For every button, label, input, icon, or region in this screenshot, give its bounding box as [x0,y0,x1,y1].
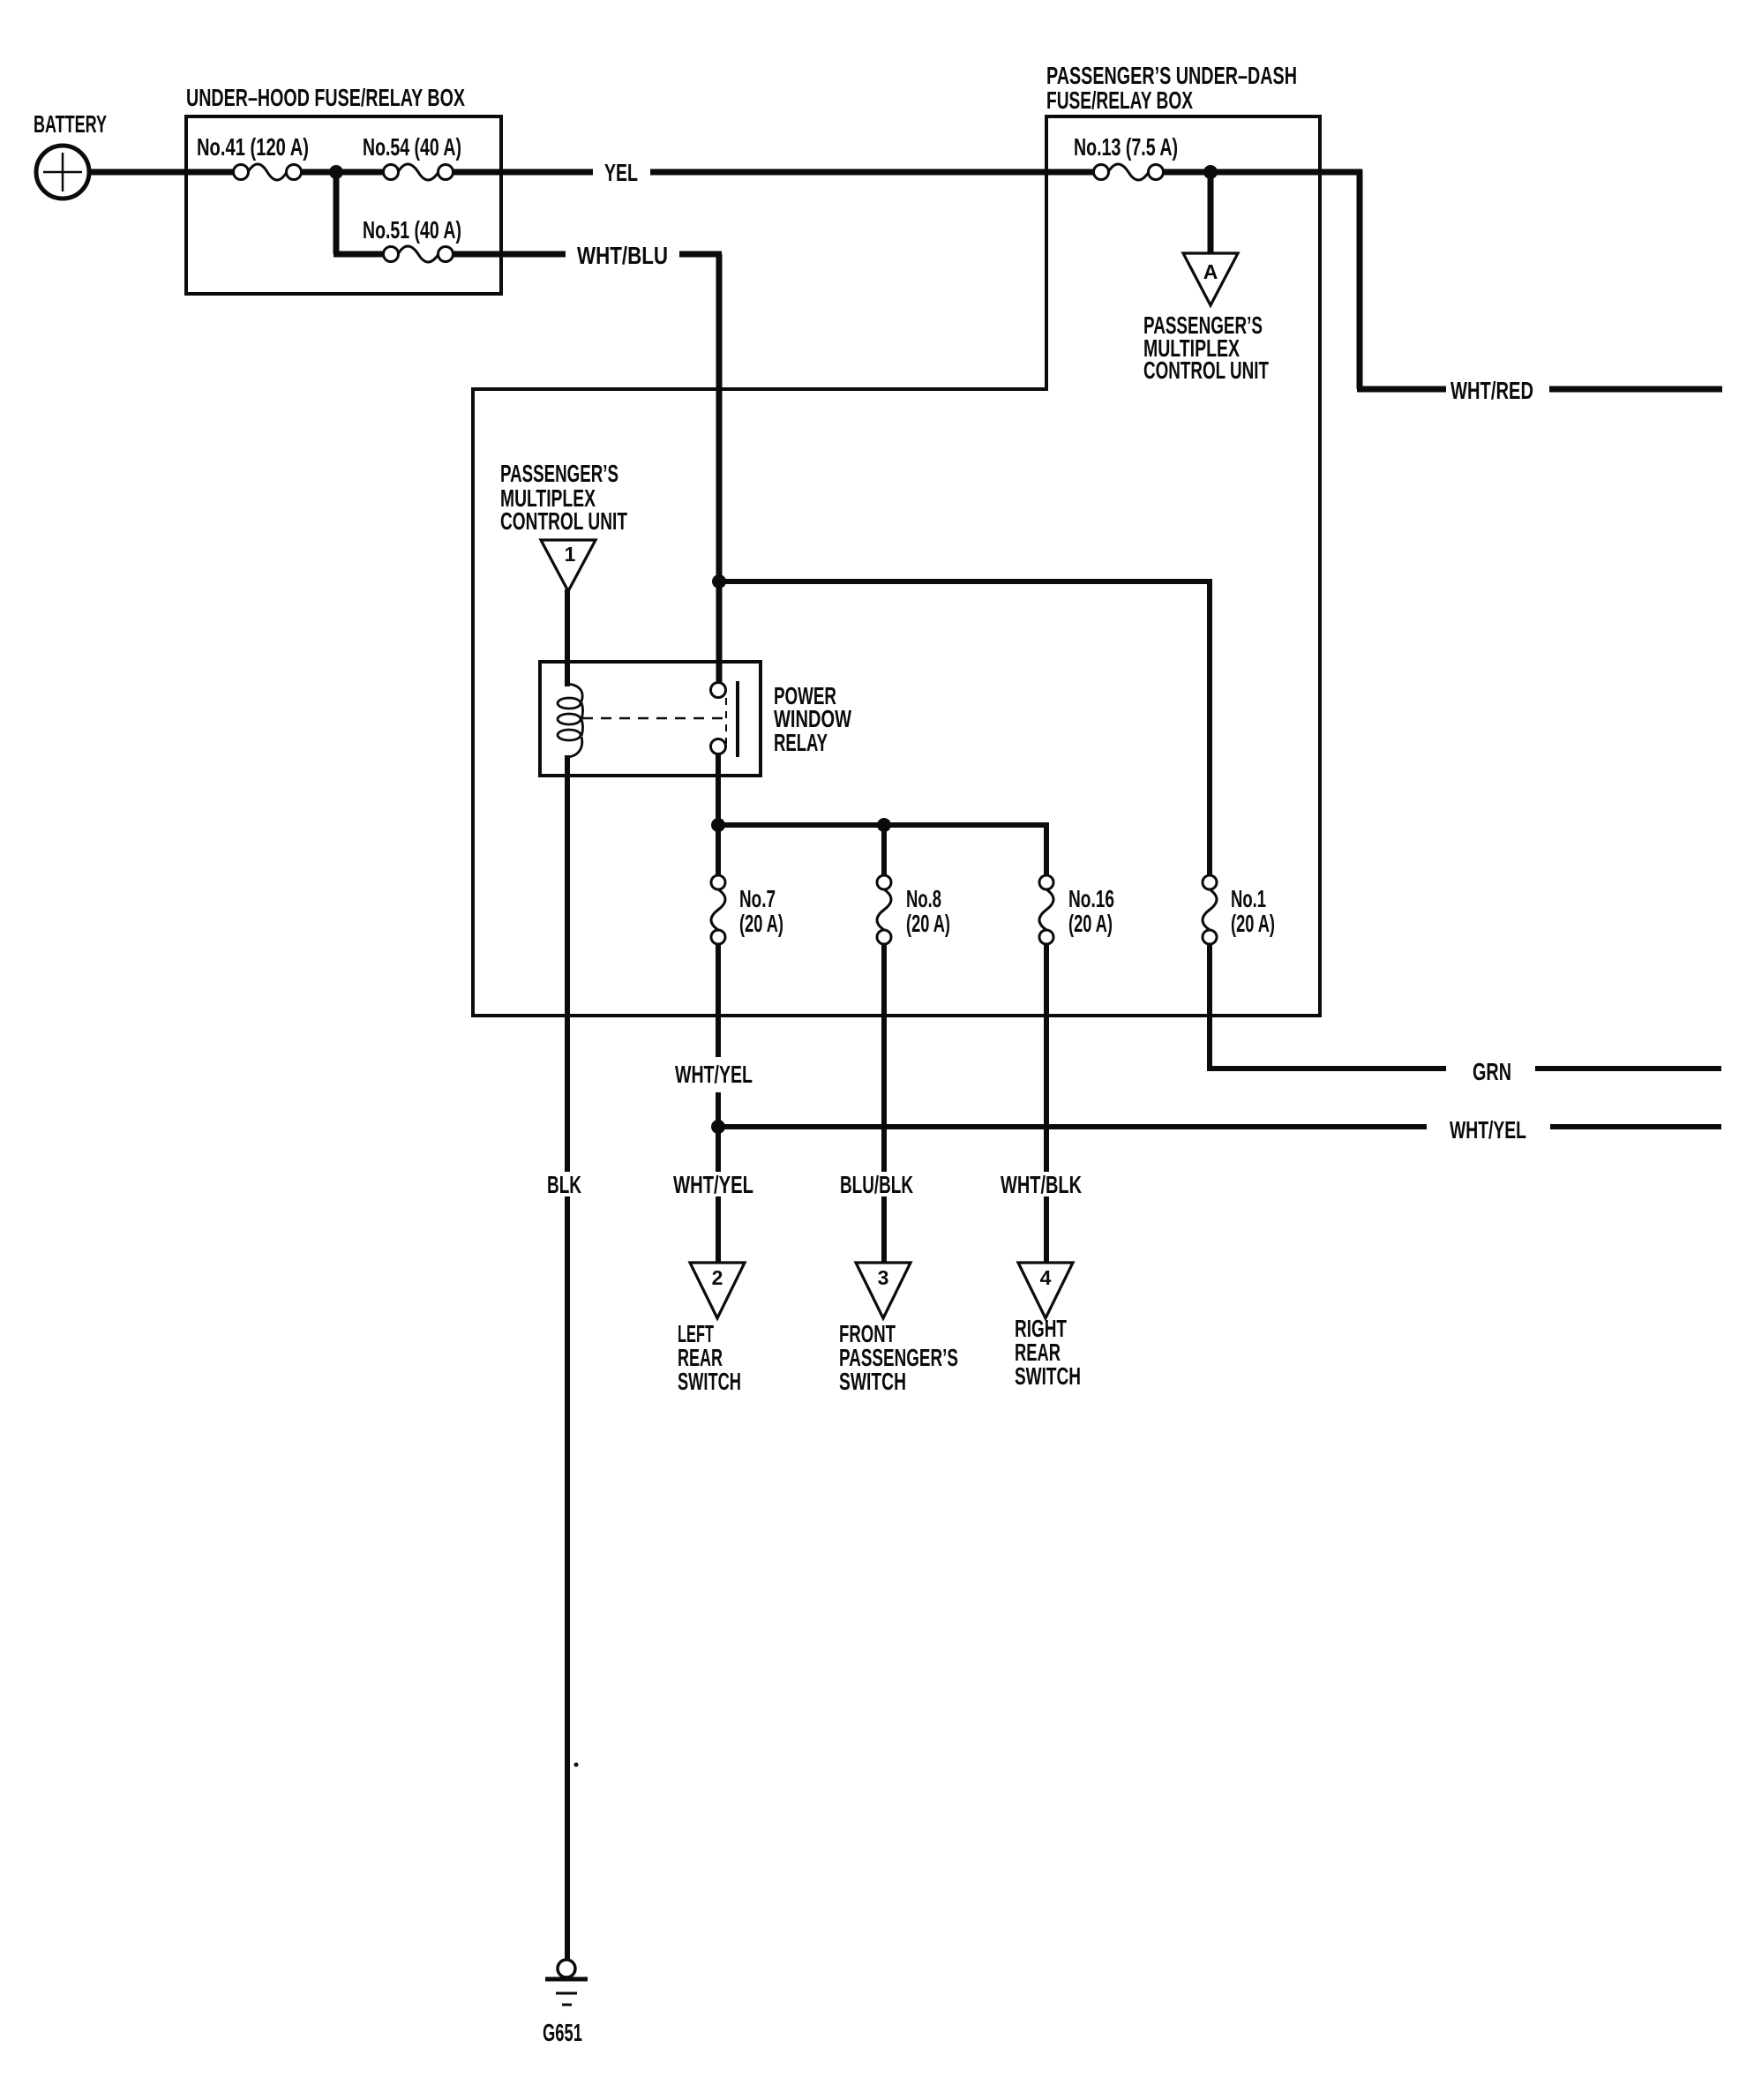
label front passenger's switch [839,1320,958,1395]
wire BLK label to ground [565,1196,570,1961]
svg-text:CONTROL UNIT: CONTROL UNIT [500,507,627,535]
wire WHT/RED left segment [1357,386,1446,393]
wire WHT/BLU vertical [716,254,723,684]
svg-text:No.13 (7.5 A): No.13 (7.5 A) [1074,133,1178,161]
svg-text:A: A [1203,260,1218,283]
wire fuse No.41 to junction [301,169,336,176]
svg-text:YEL: YEL [604,159,638,186]
svg-text:4: 4 [1040,1266,1052,1289]
svg-text:No.41 (120 A): No.41 (120 A) [197,133,309,161]
svg-text:GRN: GRN [1473,1058,1511,1085]
label right rear switch [1015,1315,1081,1390]
svg-text:SWITCH: SWITCH [839,1368,906,1395]
junction node WHT/YEL [711,1120,725,1134]
fuse No.16 (20 A) [1039,875,1114,944]
wire fuse No.7 down (WHT/YEL) [716,944,721,1057]
svg-text:CONTROL UNIT: CONTROL UNIT [1143,356,1269,384]
svg-text:3: 3 [878,1266,889,1289]
connector triangle 2 [690,1263,745,1318]
wire WHT/YEL to triangle 2 [716,1196,721,1263]
svg-text:G651: G651 [543,2019,582,2046]
svg-text:PASSENGER’S UNDER–DASH: PASSENGER’S UNDER–DASH [1046,62,1297,89]
svg-text:(20 A): (20 A) [739,910,783,937]
wire relay contact to bus [716,754,721,875]
svg-text:No.8: No.8 [906,885,941,912]
svg-text:No.1: No.1 [1231,885,1266,912]
fuse No.8 (20 A) [877,875,950,944]
junction node bus middle [877,818,891,832]
wire triangle 1 to relay coil [565,589,570,686]
svg-text:WHT/YEL: WHT/YEL [1450,1116,1526,1144]
svg-text:No.54 (40 A): No.54 (40 A) [363,133,461,161]
svg-text:SWITCH: SWITCH [678,1368,741,1395]
wire junction to fuse No.1 horizontal [719,579,1210,584]
wire GRN left segment [1207,1066,1446,1071]
wire fuse No.54 to YEL label [453,169,593,176]
svg-text:WHT/BLK: WHT/BLK [1001,1171,1082,1198]
relay coil-contact dashed link [582,717,723,720]
ground G651 [543,1960,588,2046]
svg-text:SWITCH: SWITCH [1015,1362,1081,1390]
svg-text:(20 A): (20 A) [1068,910,1113,937]
label passenger's multiplex control unit (connector A) [1143,311,1269,384]
wire junction to fuse No.51 [334,251,385,258]
wire WHT/BLU horizontal [679,251,722,258]
connector triangle 1 [541,540,596,591]
wire WHT/RED right segment [1549,386,1722,393]
svg-text:WHT/YEL: WHT/YEL [673,1171,753,1198]
relay contact [711,681,738,757]
wire BLK relay to label [565,755,570,1172]
fuse No.13 (7.5 A) [1074,133,1178,180]
wire WHT/BLK to triangle 4 [1044,1196,1049,1263]
speck artifact [574,1763,579,1767]
wire fuse No.16 down (WHT/BLK) [1044,944,1049,1172]
svg-text:1: 1 [565,543,576,566]
junction node in under-hood box [329,165,343,179]
label passenger's multiplex control unit (connector 1) [500,460,627,535]
label passenger's under-dash fuse/relay box [1046,62,1297,114]
junction node under-dash [1203,165,1218,179]
connector triangle 4 [1018,1263,1073,1318]
bus wire [718,822,1049,828]
wire YEL to under-dash box [650,169,1095,176]
svg-text:UNDER–HOOD FUSE/RELAY BOX: UNDER–HOOD FUSE/RELAY BOX [186,84,465,111]
wire junction down [334,169,340,254]
wire WHT/RED vertical [1357,169,1363,389]
svg-text:2: 2 [712,1266,723,1289]
wire WHT/YEL horizontal [718,1124,1427,1129]
wire WHT/YEL below label [716,1092,721,1172]
wire fuse No.13 to right [1163,169,1362,176]
wire junction to fuse No.54 [336,169,385,176]
svg-text:No.16: No.16 [1068,885,1114,912]
fuse No.54 (40 A) [363,133,461,180]
svg-text:No.7: No.7 [739,885,776,912]
svg-text:WHT/RED: WHT/RED [1450,377,1533,404]
svg-text:PASSENGER’S: PASSENGER’S [500,460,618,487]
svg-text:(20 A): (20 A) [906,910,950,937]
fuse No.1 (20 A) [1203,875,1275,944]
svg-text:BLU/BLK: BLU/BLK [840,1171,913,1198]
svg-text:BLK: BLK [547,1171,581,1198]
wire BLU/BLK to triangle 3 [881,1196,887,1263]
svg-text:WHT/BLU: WHT/BLU [577,242,668,269]
svg-text:WHT/YEL: WHT/YEL [675,1061,753,1088]
label power window relay [774,682,851,756]
label left rear switch [678,1320,741,1395]
relay coil [558,684,583,757]
power window relay box [540,662,761,776]
svg-text:FUSE/RELAY BOX: FUSE/RELAY BOX [1046,86,1193,114]
svg-text:RELAY: RELAY [774,729,828,756]
wire bus to fuse No.8 [881,825,887,875]
wire junction to triangle A [1208,172,1214,255]
wire fuse No.1 down [1207,944,1212,1069]
junction node on WHT/BLU vertical [712,574,726,589]
battery B1 [34,110,107,199]
passenger's under-dash fuse/relay box outline [473,116,1320,1016]
wire GRN right segment [1535,1066,1721,1071]
svg-text:No.51 (40 A): No.51 (40 A) [363,216,461,244]
connector triangle A [1183,253,1238,305]
wire fuse No.51 to WHT/BLU label [453,251,566,258]
fuse No.7 (20 A) [711,875,783,944]
svg-text:(20 A): (20 A) [1231,910,1275,937]
wire fuse No.8 down (BLU/BLK) [881,944,887,1172]
wire down to fuse No.1 [1207,579,1212,875]
junction node bus left [711,818,725,832]
fuse No.51 (40 A) [363,216,461,262]
under-hood fuse/relay box [186,116,501,294]
fuse No.41 (120 A) [197,133,309,180]
wire WHT/YEL right segment [1550,1124,1721,1129]
wire bus to fuse No.16 [1044,822,1049,875]
wire battery to under-hood box [87,169,190,176]
wire battery feed inside box [186,169,235,176]
svg-text:BATTERY: BATTERY [34,110,107,138]
connector triangle 3 [856,1263,911,1318]
